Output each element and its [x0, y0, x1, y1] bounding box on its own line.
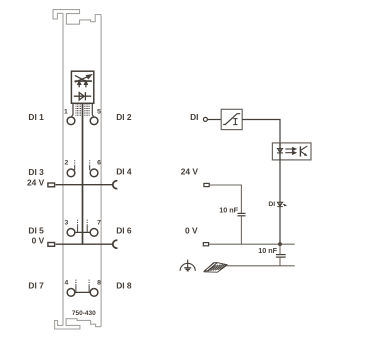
terminal 7 clamp — [90, 229, 98, 237]
wire junction to C2 — [279, 244, 281, 254]
wire shield line — [227, 265, 295, 267]
terminal 3 clamp — [67, 229, 75, 237]
diode D1 in LED box — [74, 92, 91, 100]
power jumper contact socket 0V — [113, 240, 118, 248]
terminal square 0V right — [203, 243, 208, 246]
junction node 0V — [278, 242, 282, 246]
svg-text:750-430: 750-430 — [72, 310, 96, 317]
power jumper contact socket 24V — [113, 181, 118, 189]
filter I symbol — [233, 119, 237, 125]
filter ramp symbol — [223, 114, 240, 125]
wire 24V branch — [210, 185, 242, 213]
filter box U1 — [221, 109, 242, 129]
capacitor C2 10nF — [276, 255, 286, 258]
svg-text:10 nF: 10 nF — [258, 246, 277, 255]
svg-text:7: 7 — [97, 219, 101, 226]
svg-text:3: 3 — [65, 219, 69, 226]
terminal square 24V right — [204, 183, 209, 186]
svg-text:24 V: 24 V — [181, 166, 199, 176]
terminal 5 clamp — [90, 117, 98, 125]
LED symbol bar — [75, 80, 92, 82]
LED diode arrow 1 — [78, 81, 81, 87]
DIN rail contact symbol — [204, 263, 228, 273]
wire LED box to terminal 1 — [72, 103, 73, 116]
svg-text:8: 8 — [97, 279, 101, 286]
module outline top connector profile — [53, 10, 101, 25]
wire C2 to shield line — [279, 258, 281, 266]
LED diode arrow 2 — [85, 81, 88, 87]
svg-text:1: 1 — [64, 109, 68, 116]
svg-text:DI: DI — [268, 201, 275, 208]
capacitor C1 10nF — [238, 213, 246, 215]
svg-text:2: 2 — [65, 160, 69, 167]
node 24V rail wire — [56, 184, 113, 186]
terminal 2 clamp — [67, 169, 75, 177]
terminal 6 clamp — [90, 169, 98, 177]
wire optocoupler to 0V junction — [279, 160, 281, 244]
node 0V rail wire — [56, 243, 113, 245]
module left edge — [62, 13, 64, 325]
svg-text:0 V: 0 V — [32, 236, 45, 246]
svg-text:DI: DI — [190, 112, 198, 122]
power jumper contact plug 24V — [48, 183, 55, 187]
hidden wire stub terminal 6 — [89, 160, 91, 170]
svg-text:DI 2: DI 2 — [116, 112, 132, 122]
optocoupler box U2 — [272, 143, 311, 160]
terminal 8 clamp — [90, 289, 98, 297]
svg-text:DI 7: DI 7 — [28, 281, 44, 291]
svg-text:4: 4 — [65, 279, 69, 286]
svg-text:5: 5 — [97, 109, 101, 116]
hidden wire stub terminal 4 — [75, 280, 77, 292]
hidden wire stub terminal 7 — [86, 220, 88, 232]
terminal 4 clamp — [67, 289, 75, 297]
wire LED box to terminal 5 — [92, 103, 93, 116]
optocoupler LED — [277, 149, 283, 153]
svg-text:10 nF: 10 nF — [219, 206, 238, 215]
optocoupler phototransistor Q1 — [300, 146, 307, 157]
status LED DI — [277, 202, 287, 206]
svg-text:DI 6: DI 6 — [116, 225, 132, 235]
svg-text:DI 3: DI 3 — [28, 167, 44, 177]
wire DI to filter — [207, 119, 221, 121]
optocoupler light arrows — [285, 148, 296, 155]
earth ground symbol — [180, 260, 195, 271]
hidden wire stub terminal 8 — [88, 280, 90, 292]
svg-text:DI 5: DI 5 — [28, 225, 44, 235]
wire 0V rail right side — [209, 243, 295, 245]
svg-text:24 V: 24 V — [27, 177, 45, 187]
hidden wire stub terminal 3 — [77, 220, 79, 232]
wire row3 terminals to bus — [71, 231, 94, 233]
wire C1 to 0V rail — [240, 216, 242, 244]
LED emission arrows cross — [75, 75, 92, 82]
wire internal bus vertical — [82, 103, 84, 244]
svg-text:DI 8: DI 8 — [116, 281, 132, 291]
wire row4 terminals link — [71, 291, 94, 293]
terminal 1 clamp — [67, 117, 75, 125]
hidden wires dotted bundle — [76, 104, 89, 116]
LED indicator box U-LED — [71, 71, 93, 103]
svg-text:DI 4: DI 4 — [116, 167, 132, 177]
svg-text:DI 1: DI 1 — [28, 112, 44, 122]
module right edge — [100, 15, 102, 327]
svg-text:0 V: 0 V — [185, 226, 198, 236]
power jumper contact plug 0V — [48, 243, 55, 247]
wire through optocoupler — [279, 143, 281, 160]
svg-text:6: 6 — [97, 160, 101, 167]
terminal DI input circle — [203, 117, 207, 121]
hidden wire stub terminal 2 — [74, 160, 76, 170]
wire filter to optocoupler — [242, 120, 280, 143]
module outline bottom foot profile — [55, 319, 102, 329]
